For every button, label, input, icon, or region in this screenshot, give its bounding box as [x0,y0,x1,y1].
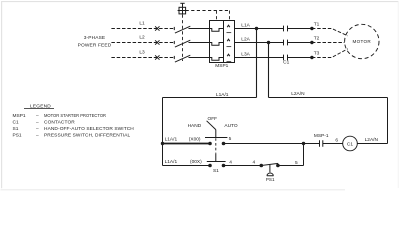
legend title underline [24,108,54,110]
svg-text:C1: C1 [283,60,289,66]
wire L1 dashed feed [111,28,174,30]
contact S1-1 left dot [208,142,212,146]
terminal T2 dot [310,41,313,44]
pressure switch PS1 blade [261,163,278,165]
svg-text:L2A/N: L2A/N [291,91,305,97]
MSP1 thermal element L2 [210,43,224,46]
svg-text:L1A: L1A [241,23,250,29]
3-phase power feed label [78,35,112,48]
trip linkage dashed to MSP1 [186,11,230,21]
control rail left vertical [162,98,164,166]
svg-text:L1A/1: L1A/1 [165,159,178,165]
disconnect fixed contact L3 [173,56,175,59]
terminal T1 dot [310,27,313,30]
junction dot L2A tap [267,41,270,44]
disconnect blade L1 [175,26,190,33]
wire rung2 up to rung1 [303,144,305,166]
svg-text:(X00): (X00) [189,137,201,143]
MSP1 trip bar L3 [227,61,232,63]
MSP1 thermal element L1 [210,29,224,32]
terminal T3 dot [310,56,313,59]
control rail right vertical [387,98,389,144]
svg-text:MSP-1: MSP-1 [314,133,329,139]
contact S1-2 right dot [222,164,226,168]
svg-text:POWER FEED: POWER FEED [78,42,112,48]
disconnect fixed contact L2 [173,41,175,44]
svg-text:5: 5 [295,160,298,166]
junction dot rung1/rung2 [302,142,305,145]
wire rung1 L1A/1 bold [163,143,211,145]
legend row S1 [13,126,135,132]
MSP1 motor starter protector box [210,21,235,63]
wire C1 to T1 [288,28,312,30]
wire L2 to MSP1 [189,42,210,44]
control rail top right L2A/N [269,97,388,99]
selector S1 handle blade [207,121,216,130]
wire C1 to T2 [288,42,312,44]
contact S1-2 left dot [208,164,212,168]
contactor C1 pole L1 [284,26,288,32]
MSP1 magnetic trip arrow L3 [227,54,230,56]
X mark on L3 [155,55,159,59]
disconnect operator handle [178,3,186,14]
legend row MSP1 [13,113,107,119]
svg-text:–: – [36,134,39,139]
svg-text:T3: T3 [314,51,320,57]
svg-text:HAND-OFF-AUTO SELECTOR SWITCH: HAND-OFF-AUTO SELECTOR SWITCH [44,126,134,132]
MSP1 magnetic trip arrow L1 [227,25,230,27]
svg-text:L3A: L3A [241,52,250,58]
pressure switch PS1 actuator stem [269,165,271,173]
wire coil to right rail [357,143,387,145]
svg-text:T1: T1 [314,22,320,28]
wire C1 to T3 [288,57,312,59]
X mark on L1 [155,26,159,30]
svg-text:MSP1: MSP1 [13,113,26,119]
contactor C1 pole L2 [284,40,288,46]
svg-text:L1: L1 [139,20,145,26]
svg-text:PRESSURE SWITCH, DIFFERENTIAL: PRESSURE SWITCH, DIFFERENTIAL [44,133,131,139]
svg-text:HAND: HAND [188,123,202,129]
contact S1-1 right dot [222,142,226,146]
svg-text:3-PHASE: 3-PHASE [84,35,106,41]
pressure switch PS1 right dot [276,164,280,168]
disconnect blade L2 [175,40,190,47]
svg-text:5: 5 [229,136,232,142]
wire L3A [235,57,284,59]
disconnect fixed contact L1 [173,27,175,30]
contactor C1 pole L3 [284,55,288,61]
junction dot rung1 left rail [161,142,164,145]
svg-text:S1: S1 [213,168,219,174]
pressure switch PS1 left dot [260,164,264,168]
interlock linkage vertical dashed [182,15,184,62]
svg-text:AUTO: AUTO [224,123,238,129]
contact MSP-1 auxiliary [320,140,323,146]
control rail top left L1A/1 [163,97,257,99]
motor lead T2 dashed [312,42,345,44]
svg-text:L2: L2 [139,34,145,40]
MSP1 trip bar L2 [227,46,232,48]
MSP1 trip bar L1 [227,32,232,34]
svg-text:–: – [36,121,39,126]
svg-text:–: – [36,114,39,119]
svg-text:L2A: L2A [241,37,250,43]
svg-text:C1: C1 [13,120,19,126]
legend row PS1 [13,133,131,139]
svg-text:4: 4 [252,160,255,166]
svg-text:L1A/1: L1A/1 [165,137,178,143]
coil C1 circle [343,136,358,151]
wire L1A [235,28,284,30]
wire L3 to MSP1 [189,57,210,59]
wire drop L2A to control [268,43,270,98]
svg-text:CONTACTOR: CONTACTOR [44,120,75,126]
selector S1 bridge bar contact 2 [207,161,226,163]
wire rung2 L1A/1 [163,165,211,167]
MSP1 thermal element L3 [210,58,224,61]
wire L2 dashed feed [111,42,174,44]
svg-text:PS1: PS1 [266,177,275,182]
svg-text:T2: T2 [314,36,320,42]
wire L3 dashed feed [111,57,174,59]
motor M1 dashed circle [345,24,379,58]
wire L2A [235,42,284,44]
svg-text:S1: S1 [13,126,19,132]
svg-text:L1A/1: L1A/1 [216,92,229,98]
legend row C1 [13,120,76,126]
motor lead T3 dashed [312,49,348,58]
pressure switch PS1 diaphragm [267,173,274,176]
wire drop L1A to control [256,29,258,98]
selector S1 linkage dashed [215,138,217,153]
wire rung2 node5 [278,165,304,167]
selector S1 bridge bar contact 1 [205,137,227,139]
wire rung1 to coil [304,143,343,145]
svg-text:OFF: OFF [208,116,218,122]
wire L1 to MSP1 [189,28,210,30]
selector S1 shaft to bridge 2 [215,153,217,161]
svg-text:MOTOR STARTER PROTECTOR: MOTOR STARTER PROTECTOR [44,113,106,119]
svg-text:(00X): (00X) [190,159,202,165]
svg-text:MSP1: MSP1 [215,63,228,69]
svg-text:C1: C1 [347,141,353,147]
MSP1 magnetic trip arrow L2 [227,39,230,41]
selector S1 shaft to bridge 1 [215,130,217,138]
motor lead T1 dashed [312,29,348,36]
wire rung1 node5 [224,143,304,145]
svg-text:L3: L3 [139,49,145,55]
X mark on L2 [155,40,159,44]
svg-text:PS1: PS1 [13,133,22,139]
svg-text:4: 4 [229,160,232,166]
disconnect blade L3 [175,55,190,62]
svg-text:MOTOR: MOTOR [353,39,372,44]
svg-text:–: – [36,127,39,132]
svg-text:L2A/N: L2A/N [365,137,379,143]
svg-text:6: 6 [335,138,338,144]
wire rung2 node4 [224,165,262,167]
junction dot L1A tap [255,27,258,30]
